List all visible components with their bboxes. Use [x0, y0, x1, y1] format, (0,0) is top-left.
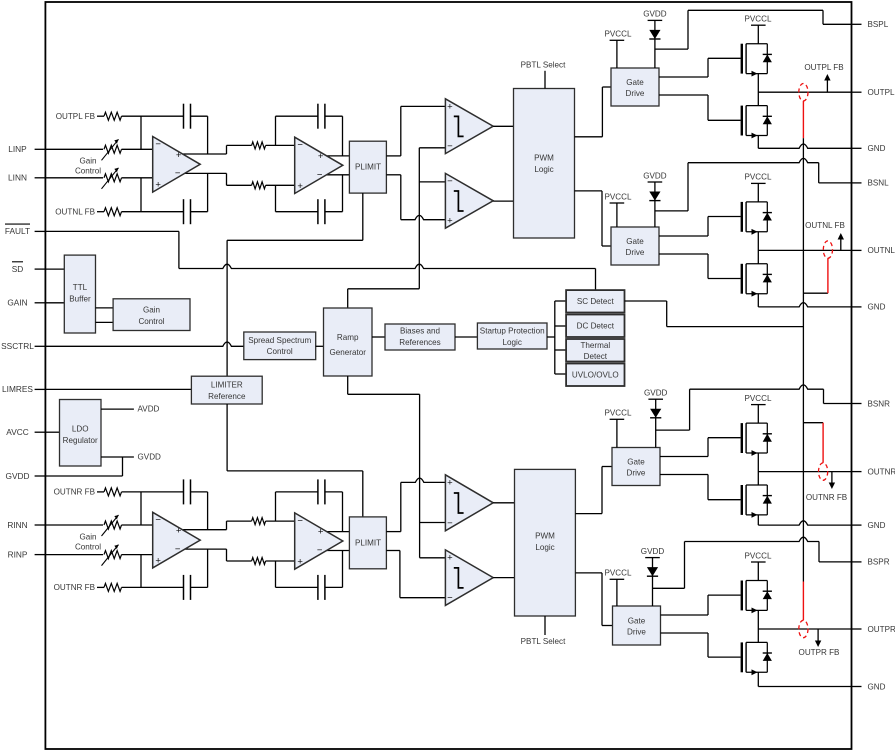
block Biases and References — [385, 324, 455, 350]
svg-text:Drive: Drive — [626, 89, 645, 98]
capacitor C8 (amp4 bottom fb) — [318, 575, 325, 600]
svg-text:Logic: Logic — [535, 543, 554, 552]
wire amp3 upper output — [183, 521, 227, 530]
svg-text:PVCCL: PVCCL — [745, 173, 772, 182]
block Gate Drive GD4 — [613, 606, 661, 645]
svg-text:Control: Control — [267, 347, 293, 356]
wire PWM2 to gate drive GD3 — [575, 467, 612, 514]
variable resistor gain RINP — [102, 545, 122, 566]
svg-text:−: − — [155, 139, 161, 150]
svg-text:OUTNR: OUTNR — [868, 467, 895, 476]
svg-text:DC Detect: DC Detect — [577, 322, 615, 331]
wire OUTNR FB bottom to cap — [122, 586, 184, 588]
svg-text:Spread Spectrum: Spread Spectrum — [248, 336, 311, 345]
pin LINN (left) — [8, 173, 45, 183]
wire comparator outputs to PWM logic (right) — [493, 503, 514, 578]
svg-text:Control: Control — [75, 542, 101, 551]
gate feed low-side pair4 — [661, 633, 741, 657]
capacitor C5 (OUTNR FB top) — [184, 479, 191, 504]
wire low-side source to GND pair3 — [757, 515, 759, 525]
svg-text:Drive: Drive — [627, 628, 646, 637]
wire GAIN to TTL buffer — [45, 302, 64, 304]
svg-text:Startup Protection: Startup Protection — [480, 326, 545, 335]
svg-text:FAULT: FAULT — [5, 226, 30, 236]
amp2 bottom feedback loop — [276, 175, 343, 212]
wire PLIMIT2 out1 to comparator U3 plus — [386, 478, 445, 532]
svg-text:PVCCL: PVCCL — [605, 192, 632, 201]
svg-text:−: − — [297, 515, 303, 526]
svg-text:Gate: Gate — [627, 458, 645, 467]
label OUTNL FB with feed resistor — [55, 208, 121, 217]
AVDD stub and label — [101, 405, 160, 414]
pin RINP (left) — [8, 549, 46, 559]
node riser pair1 — [757, 74, 759, 106]
block Ramp Generator — [324, 308, 373, 376]
sense branch OUTNL — [803, 241, 832, 293]
op-amp A3 (right input amp) — [153, 512, 201, 568]
svg-text:−: − — [175, 168, 181, 179]
svg-text:OUTNR FB: OUTNR FB — [806, 493, 847, 502]
svg-text:References: References — [399, 338, 440, 347]
block PLIMIT (left) — [349, 141, 386, 193]
PVCCL supply to Gate Drive GD3 — [605, 409, 632, 448]
wire amp1 upper output — [183, 145, 227, 154]
wire limiter reference to PLIMIT2 — [227, 404, 363, 517]
svg-text:+: + — [447, 102, 453, 113]
block TTL Buffer — [64, 255, 95, 333]
wire low-side source to GND pair4 — [757, 672, 759, 686]
pin LIMRES (left) — [2, 384, 45, 394]
svg-text:+: + — [155, 555, 161, 566]
wire stage2 lower (right ch) with resistor — [227, 558, 295, 565]
svg-text:−: − — [447, 593, 453, 604]
comparator U2 (left bottom) — [445, 173, 493, 228]
wire PWM1 to gate drive GD2 — [575, 191, 612, 246]
wire stage2 lower with resistor — [227, 182, 295, 189]
svg-text:Drive: Drive — [626, 248, 645, 257]
pin GND (right) — [852, 521, 886, 530]
svg-text:Control: Control — [138, 317, 164, 326]
pin GVDD (left) — [6, 471, 46, 481]
svg-text:PVCCL: PVCCL — [605, 30, 632, 39]
wires TTL buffer to gain control box — [96, 308, 114, 323]
capacitor C3 (amp2 top fb) — [318, 104, 325, 129]
wire AVCC to LDO — [45, 431, 59, 433]
svg-text:LIMRES: LIMRES — [2, 384, 33, 394]
svg-text:RINP: RINP — [8, 549, 28, 559]
svg-text:SSCTRL: SSCTRL — [1, 341, 34, 351]
wire LINP to amp1 — [122, 148, 153, 150]
wire SSCTRL to spread spectrum control — [45, 342, 243, 346]
label Gain Control (right channel) — [75, 532, 101, 551]
node junction vertical RINN — [140, 492, 142, 525]
block Spread Spectrum Control — [244, 332, 316, 360]
block LDO Regulator — [60, 400, 102, 467]
wire RINP to amp3 — [122, 554, 153, 556]
wire OUTPL FB line to cap — [122, 115, 184, 117]
node junction vertical LINN/OUTNL FB — [140, 178, 142, 212]
node riser pair3 — [757, 453, 759, 485]
GVDD supply with bootstrap diode to Gate Drive GD2 — [643, 171, 667, 227]
wire RINP input — [45, 554, 103, 556]
wire GND (OUTPR) — [758, 686, 851, 688]
svg-text:+: + — [176, 526, 182, 537]
sense ellipse OUTPR — [799, 620, 808, 637]
wire amp4 outputs to PLIMIT2 — [326, 532, 349, 551]
svg-text:PVCCL: PVCCL — [745, 551, 772, 560]
wire fb vertical to amp1 upper output — [207, 116, 209, 154]
gate feed low-side pair3 — [660, 475, 741, 500]
variable resistor gain LINN — [102, 168, 122, 189]
svg-text:BSPL: BSPL — [868, 20, 889, 29]
amp4 bottom feedback loop — [276, 551, 343, 588]
wire OUTPL output — [758, 91, 851, 93]
svg-text:+: + — [318, 527, 324, 538]
pin OUTNR (right) — [852, 467, 895, 476]
svg-text:PVCCL: PVCCL — [605, 569, 632, 578]
svg-text:PLIMIT: PLIMIT — [355, 538, 381, 547]
PVCCL supply to high-side FET pair3 — [745, 394, 772, 423]
svg-text:TTL: TTL — [73, 283, 88, 292]
wire FAULT net — [45, 231, 595, 290]
svg-text:UVLO/OVLO: UVLO/OVLO — [572, 371, 619, 380]
wire PLIMIT1 out1 to comparator U1 plus — [386, 106, 445, 155]
svg-text:PWM: PWM — [535, 531, 555, 540]
wire PWM2 to gate drive GD4 — [575, 573, 612, 626]
PBTL Select (top) — [521, 61, 566, 89]
pin GAIN (left) — [7, 298, 45, 308]
label OUTNL FB with arrow — [805, 221, 845, 250]
svg-text:−: − — [175, 544, 181, 555]
svg-text:PLIMIT: PLIMIT — [355, 163, 381, 172]
svg-text:Control: Control — [75, 167, 101, 176]
capacitor C1 (OUTPL FB) — [184, 104, 191, 129]
svg-text:Regulator: Regulator — [63, 436, 98, 445]
pin LINP (left) — [8, 144, 45, 154]
wire PLIMIT1 bottom to limiter link — [227, 193, 363, 376]
GVDD stub and label — [101, 452, 161, 461]
svg-text:Gain: Gain — [79, 532, 96, 541]
pin SD (left) — [12, 262, 46, 274]
op-amp A2 (left second stage) — [295, 137, 343, 193]
block PLIMIT (right) — [349, 517, 386, 569]
wire GND (OUTNL) — [758, 303, 851, 307]
comparator U4 (right bottom) — [445, 550, 493, 606]
block Gain Control — [113, 299, 190, 331]
wire stage2 upper (right ch) with resistor — [227, 518, 295, 525]
wire OUTNL FB line to cap — [122, 211, 184, 213]
wire PLIMIT1 out2 to comparator U2 plus — [386, 175, 445, 220]
GVDD supply with bootstrap diode to Gate Drive GD3 — [644, 389, 668, 448]
svg-text:GVDD: GVDD — [644, 389, 668, 398]
PVCCL supply to Gate Drive GD2 — [605, 192, 632, 227]
PBTL Select (bottom) — [521, 616, 566, 646]
label OUTPL FB with arrow — [804, 63, 843, 92]
wire LIMRES to limiter reference — [45, 388, 191, 390]
svg-text:GAIN: GAIN — [7, 298, 27, 308]
capacitor C6 (OUTNR FB bottom) — [184, 575, 191, 600]
pin BSPL (right) — [852, 20, 889, 29]
svg-text:−: − — [297, 140, 303, 151]
svg-text:AVDD: AVDD — [138, 405, 160, 414]
pin FAULT (left) — [5, 224, 46, 236]
svg-text:+: + — [176, 150, 182, 161]
svg-text:OUTNL FB: OUTNL FB — [55, 208, 95, 217]
op-amp A4 (right second stage) — [295, 513, 343, 569]
svg-text:OUTNL FB: OUTNL FB — [805, 221, 845, 230]
pin BSPR (right) — [852, 558, 890, 567]
wire GND (OUTNR) — [758, 521, 851, 525]
wire comparator outputs to PWM logic (left) — [493, 126, 513, 201]
capacitor C7 (amp4 top fb) — [318, 479, 325, 504]
svg-text:+: + — [318, 151, 324, 162]
svg-text:OUTNR FB: OUTNR FB — [54, 583, 95, 592]
wire fb vertical to amp3 upper output — [207, 492, 209, 530]
svg-text:GND: GND — [868, 682, 886, 691]
transistor low-side FET pair2 — [741, 264, 772, 297]
wire OUTNR output — [758, 471, 851, 473]
amp2 top feedback loop — [276, 116, 343, 156]
wire SC detect output to rail — [625, 301, 804, 327]
svg-text:−: − — [447, 518, 453, 529]
svg-text:PBTL Select: PBTL Select — [521, 637, 566, 646]
pin AVCC (left) — [6, 427, 45, 437]
wire LINN to amp1 — [122, 177, 153, 179]
label OUTPR FB with arrow — [799, 629, 840, 657]
pin OUTPR (right) — [852, 625, 895, 634]
gate feed high-side pair1 — [659, 58, 741, 77]
svg-text:Gate: Gate — [626, 78, 644, 87]
variable resistor gain LINP — [102, 139, 122, 160]
svg-text:Gain: Gain — [79, 157, 96, 166]
svg-text:Logic: Logic — [503, 338, 522, 347]
svg-text:−: − — [447, 176, 453, 187]
wire spread spectrum to ramp generator — [316, 345, 324, 347]
node junction vertical RINP/OUTNR FB — [140, 555, 142, 588]
svg-text:Thermal: Thermal — [580, 341, 610, 350]
svg-text:OUTPR: OUTPR — [868, 625, 895, 634]
svg-text:Generator: Generator — [329, 348, 366, 357]
wire cap to fb vertical — [191, 115, 208, 117]
svg-text:GND: GND — [868, 144, 886, 153]
PVCCL supply to high-side FET pair4 — [745, 551, 772, 580]
wire cap to fb vertical (bottom ch) — [191, 491, 208, 493]
bootstrap net BSPL — [655, 10, 852, 49]
svg-text:LIMITER: LIMITER — [211, 381, 243, 390]
feedback rail red bottom segment — [802, 582, 804, 621]
label OUTPL FB with feed resistor — [56, 112, 122, 121]
wire startup to detect bus — [547, 301, 566, 374]
svg-text:Drive: Drive — [627, 469, 646, 478]
svg-text:GND: GND — [868, 303, 886, 312]
svg-text:Detect: Detect — [584, 352, 608, 361]
block SC Detect — [566, 290, 624, 312]
block Gate Drive GD1 — [611, 68, 659, 106]
wire amp2 outputs to PLIMIT — [326, 156, 349, 175]
gate feed high-side pair3 — [660, 438, 741, 457]
wire OUTNL output — [758, 249, 851, 251]
wire ramp to comparators (bottom) — [348, 376, 446, 558]
wire OUTNR FB top to cap — [122, 491, 184, 493]
transistor low-side FET pair1 — [741, 106, 772, 139]
svg-text:Gate: Gate — [626, 237, 644, 246]
block PWM Logic (right) — [515, 469, 576, 616]
svg-text:GVDD: GVDD — [643, 10, 667, 19]
svg-text:PVCCL: PVCCL — [745, 15, 772, 24]
svg-text:AVCC: AVCC — [6, 427, 28, 437]
wire amp1 lower output — [183, 173, 227, 185]
svg-text:+: + — [297, 181, 303, 192]
node riser pair2 — [757, 232, 759, 264]
node junction vertical LINP/OUTPL FB — [140, 116, 142, 149]
block Thermal Detect — [566, 339, 624, 362]
label OUTNR FB top with feed resistor — [54, 488, 122, 497]
wire low-side source to GND pair2 — [757, 294, 759, 307]
wire cap to fb vertical — [191, 211, 208, 213]
wire fb vertical to amp1 lower output — [207, 173, 209, 211]
amp4 top feedback loop — [276, 492, 343, 532]
pin OUTPL (right) — [852, 88, 895, 97]
svg-text:BSPR: BSPR — [868, 558, 890, 567]
svg-text:BSNR: BSNR — [868, 399, 891, 408]
svg-text:−: − — [155, 515, 161, 526]
svg-text:OUTNL: OUTNL — [868, 246, 895, 255]
sense ellipse OUTPL — [799, 84, 808, 101]
svg-text:GVDD: GVDD — [6, 471, 30, 481]
variable resistor gain RINN — [102, 515, 122, 536]
bootstrap net BSPR — [653, 537, 852, 588]
GVDD supply with bootstrap diode to Gate Drive GD1 — [643, 10, 667, 68]
wire GND (OUTPL) — [758, 144, 851, 148]
label OUTNR FB with arrow — [806, 472, 847, 502]
feedback rail red top segment — [802, 101, 804, 138]
svg-text:Biases and: Biases and — [400, 326, 440, 335]
label Gain Control (left channel) — [75, 157, 101, 176]
wire PWM1 to gate drive GD1 — [575, 87, 612, 137]
svg-text:OUTPL: OUTPL — [868, 88, 895, 97]
svg-text:+: + — [447, 478, 453, 489]
pin GND (right) — [852, 303, 886, 312]
svg-text:GVDD: GVDD — [641, 547, 665, 556]
svg-text:RINN: RINN — [7, 520, 27, 530]
wire ramp generator to biases — [372, 336, 385, 338]
svg-text:OUTPL FB: OUTPL FB — [804, 63, 843, 72]
svg-text:−: − — [447, 141, 453, 152]
gate feed low-side pair1 — [659, 95, 741, 120]
PVCCL supply to Gate Drive GD1 — [605, 30, 632, 68]
wire stage2 upper with resistor — [227, 142, 295, 149]
svg-text:+: + — [297, 557, 303, 568]
sense branch OUTNR — [803, 423, 827, 481]
svg-text:−: − — [317, 169, 323, 180]
svg-text:PWM: PWM — [534, 154, 554, 163]
svg-text:LINN: LINN — [8, 173, 27, 183]
transistor low-side FET pair3 — [741, 485, 772, 518]
svg-text:+: + — [155, 180, 161, 191]
capacitor C4 (amp2 bottom fb) — [318, 199, 325, 224]
wire cap to fb vertical (bottom) — [191, 586, 208, 588]
pin SSCTRL (left) — [1, 341, 45, 351]
pin BSNR (right) — [852, 399, 891, 408]
block DC Detect — [566, 315, 624, 338]
svg-text:+: + — [447, 215, 453, 226]
svg-text:Ramp: Ramp — [337, 333, 359, 342]
transistor high-side FET pair3 — [741, 423, 772, 456]
wire low-side source to GND pair1 — [757, 136, 759, 149]
svg-text:OUTPR FB: OUTPR FB — [799, 648, 840, 657]
block Startup Protection Logic — [477, 323, 547, 349]
wire biases to startup protection — [455, 336, 477, 338]
wire ramp to comparators (top) — [348, 148, 446, 308]
node riser pair4 — [757, 610, 759, 642]
svg-text:−: − — [317, 545, 323, 556]
block UVLO/OVLO — [566, 364, 624, 387]
svg-text:Buffer: Buffer — [69, 294, 91, 303]
block PWM Logic (left) — [514, 89, 575, 239]
feedback rail black segment — [802, 138, 804, 581]
svg-text:GVDD: GVDD — [643, 171, 667, 180]
gate feed low-side pair2 — [659, 254, 741, 279]
pin GND (right) — [852, 682, 886, 691]
gate feed high-side pair4 — [661, 595, 741, 615]
transistor high-side FET pair2 — [741, 202, 772, 235]
svg-text:OUTPL FB: OUTPL FB — [56, 112, 95, 121]
svg-text:Gate: Gate — [628, 617, 646, 626]
wire PLIMIT2 out2 to comparator U4 minus — [386, 551, 445, 598]
svg-text:+: + — [447, 553, 453, 564]
svg-text:PBTL Select: PBTL Select — [521, 61, 566, 70]
svg-text:PVCCL: PVCCL — [605, 409, 632, 418]
svg-text:SD: SD — [12, 264, 24, 274]
comparator U3 (right top) — [445, 475, 493, 531]
svg-text:OUTNR FB: OUTNR FB — [54, 488, 95, 497]
pin RINN (left) — [7, 520, 45, 530]
wire RINN input — [45, 524, 103, 526]
PVCCL supply to Gate Drive GD4 — [605, 569, 632, 606]
svg-text:BSNL: BSNL — [868, 179, 890, 188]
transistor high-side FET pair4 — [741, 581, 772, 614]
GVDD supply with bootstrap diode to Gate Drive GD4 — [641, 547, 665, 606]
svg-text:SC Detect: SC Detect — [577, 297, 615, 306]
svg-text:Reference: Reference — [208, 392, 246, 401]
bootstrap net BSNL — [655, 158, 852, 211]
wire RINN to amp3 — [122, 524, 153, 526]
gate feed high-side pair2 — [659, 217, 741, 237]
wire fb vertical to amp3 lower output — [207, 549, 209, 587]
svg-text:LDO: LDO — [72, 425, 89, 434]
block Gate Drive GD3 — [612, 448, 660, 486]
svg-text:GND: GND — [868, 521, 886, 530]
wire LINP input — [45, 148, 103, 150]
PVCCL supply to high-side FET pair1 — [745, 15, 772, 44]
wire LINN input — [45, 177, 103, 179]
svg-text:LINP: LINP — [8, 144, 27, 154]
wire GVDD pin to LDO output — [45, 457, 122, 476]
svg-text:GVDD: GVDD — [138, 452, 162, 461]
svg-text:Gain: Gain — [143, 306, 160, 315]
pin OUTNL (right) — [852, 246, 895, 255]
capacitor C2 (OUTNL FB) — [184, 199, 191, 224]
wire SD to TTL buffer — [45, 268, 64, 270]
wire OUTPR output — [758, 628, 851, 630]
pin BSNL (right) — [852, 179, 890, 188]
label OUTNR FB bottom with feed resistor — [54, 583, 122, 592]
block Gate Drive GD2 — [611, 227, 659, 265]
transistor high-side FET pair1 — [741, 44, 772, 77]
wire amp3 lower output — [183, 549, 227, 561]
PVCCL supply to high-side FET pair2 — [745, 173, 772, 202]
transistor low-side FET pair4 — [741, 642, 772, 675]
